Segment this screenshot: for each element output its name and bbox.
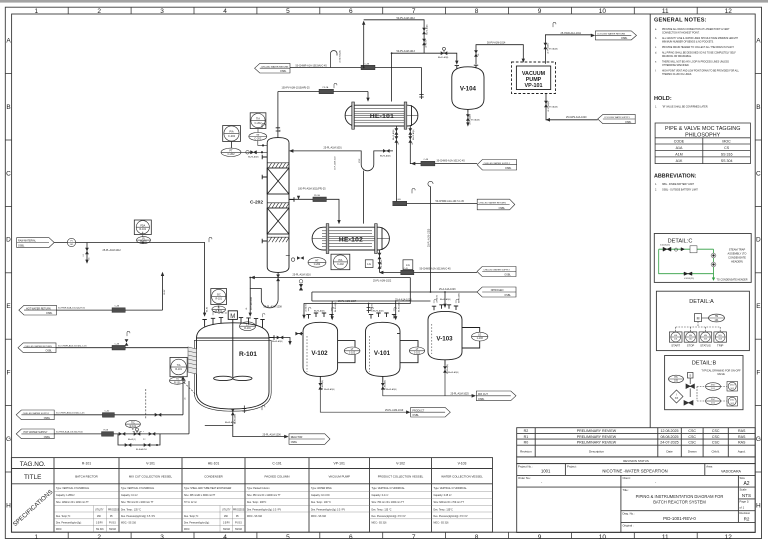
- wire V-104 to vacuum pump: [476, 45, 523, 64]
- svg-text:SP-1A2(B): SP-1A2(B): [549, 106, 558, 109]
- svg-text:50-HWR-A1A-1012(4)-H-50: 50-HWR-A1A-1012(4)-H-50: [58, 307, 86, 310]
- detail A lamp STATUS: [699, 332, 712, 347]
- svg-text:Des. Pressure(kg/cm2g): 3.5 /: Des. Pressure(kg/cm2g): 3.5 / FV: [121, 515, 156, 518]
- svg-text:Project No.:: Project No.:: [518, 465, 533, 469]
- instrument FI feed: [67, 238, 75, 246]
- svg-text:PROCESS: PROCESS: [108, 510, 120, 512]
- wire VP-101 cooling water return: [545, 35, 592, 64]
- svg-text:SP-1A2(B): SP-1A2(B): [471, 119, 480, 122]
- wire V103 drain join: [444, 366, 446, 396]
- svg-text:PROCESS: PROCESS: [233, 510, 245, 512]
- svg-text:C-202: C-202: [337, 263, 344, 266]
- svg-text:COOLING WATER RETURN: COOLING WATER RETURN: [597, 33, 625, 36]
- column C-202 packing section 1: [267, 168, 289, 194]
- svg-text:Client :: Client :: [623, 476, 632, 480]
- svg-text:V-101: V-101: [374, 350, 391, 357]
- svg-text:VADODARA: VADODARA: [721, 470, 742, 474]
- svg-text:OSBL: OSBL: [46, 350, 53, 353]
- wire feed drain stub: [86, 243, 88, 261]
- riser valve tags rotated: [334, 129, 416, 170]
- revision rows text: [524, 429, 746, 445]
- svg-text:7: 7: [412, 534, 416, 541]
- svg-text:RAS: RAS: [738, 429, 746, 433]
- svg-text:A2: A2: [743, 481, 749, 487]
- svg-text:OSBL: OSBL: [625, 121, 632, 124]
- svg-text:E: E: [756, 303, 761, 310]
- svg-text:HEADER): HEADER): [731, 260, 743, 264]
- right panel separator: [649, 14, 651, 428]
- svg-text:BA-H1(C): BA-H1(C): [128, 438, 136, 441]
- svg-text:Revision: Revision: [740, 511, 751, 515]
- svg-text:F: F: [7, 370, 11, 377]
- wire chilled water return low: [56, 347, 188, 349]
- svg-text:DETAIL:C: DETAIL:C: [668, 239, 693, 245]
- svg-text:VALVE: VALVE: [717, 373, 725, 376]
- svg-text:Date: Date: [666, 449, 673, 453]
- svg-text:A: A: [756, 38, 761, 45]
- svg-text:Type: VERTICAL CYLINDRICAL: Type: VERTICAL CYLINDRICAL: [372, 487, 406, 490]
- column C-202 side nozzles: [262, 155, 294, 243]
- svg-text:BATCH RECTOR: BATCH RECTOR: [75, 474, 98, 478]
- svg-text:MOC:- SS 316: MOC:- SS 316: [121, 523, 137, 525]
- svg-text:CHILLED WATER RETURN: CHILLED WATER RETURN: [25, 345, 53, 348]
- svg-text:MINIMUM NUMBER OF BENDS & NO P: MINIMUM NUMBER OF BENDS & NO POCKETS.: [662, 42, 714, 44]
- svg-text:1-101: 1-101: [414, 352, 421, 355]
- svg-text:Scale: Scale: [740, 488, 747, 492]
- wire hot water supply: [54, 381, 189, 434]
- svg-text:PRODUCT: PRODUCT: [412, 409, 424, 412]
- svg-text:PRELIMINARY REVIEW: PRELIMINARY REVIEW: [577, 441, 617, 445]
- svg-text:Size: 395 mmID x 3000 mmTT: Size: 395 mmID x 3000 mmTT: [184, 495, 216, 497]
- svg-text:50-CHWR-A1A-1015(4)-C-45: 50-CHWR-A1A-1015(4)-C-45: [296, 64, 328, 67]
- svg-text:OSBL: OSBL: [18, 244, 25, 247]
- svg-text:Des. Pressure(kg/cm2g): 3.5 /: Des. Pressure(kg/cm2g): 3.5 / FV: [311, 509, 346, 512]
- detail A lamp START: [669, 332, 682, 347]
- detail B solenoid: [688, 373, 694, 379]
- svg-text:TIC: TIC: [131, 421, 135, 424]
- svg-text:R-101: R-101: [140, 228, 147, 231]
- svg-text:RAS: RAS: [738, 435, 746, 439]
- svg-text:11: 11: [662, 534, 669, 541]
- svg-text:R-101: R-101: [82, 462, 91, 466]
- svg-text:MOC:: MOC:: [56, 529, 62, 531]
- svg-text:FV/3.5: FV/3.5: [109, 523, 116, 525]
- detail A lamp TRIP: [714, 332, 727, 347]
- svg-text:V-103: V-103: [436, 336, 453, 343]
- wire 1022 riser and manifold: [304, 278, 410, 316]
- wire nitrogen drop V-103: [444, 292, 446, 305]
- svg-text:SIC: SIC: [217, 294, 221, 297]
- svg-text:SA-H1-A2(B): SA-H1-A2(B): [386, 388, 397, 391]
- svg-text:REACTOR: REACTOR: [291, 436, 303, 439]
- svg-text:25-PL-A1M-1019: 25-PL-A1M-1019: [385, 409, 404, 412]
- svg-text:OSBL: OSBL: [505, 167, 512, 170]
- wire pv-1013 header: [392, 53, 457, 61]
- svg-text:08.08.2025: 08.08.2025: [661, 435, 679, 439]
- svg-text:25-PL-A1M-1001: 25-PL-A1M-1001: [324, 147, 343, 150]
- svg-text:E: E: [6, 303, 11, 310]
- svg-text:12: 12: [725, 8, 733, 15]
- R-101 limpet coil hatch: [188, 347, 197, 374]
- svg-text:F: F: [756, 370, 760, 377]
- instrument PIA C-202: [221, 126, 241, 157]
- svg-text:TIA: TIA: [177, 364, 181, 367]
- arrow sample down: [288, 341, 291, 345]
- svg-text:RAW MATERIAL: RAW MATERIAL: [18, 240, 37, 243]
- svg-text:8: 8: [475, 534, 479, 541]
- svg-text:A1M: A1M: [675, 152, 682, 156]
- svg-text:CSC: CSC: [712, 429, 720, 433]
- svg-text:Area:: Area:: [706, 465, 713, 469]
- spec table title row: [75, 474, 483, 478]
- svg-text:OTHERWISE SPECIFIED.: OTHERWISE SPECIFIED.: [662, 65, 690, 67]
- svg-text:C: C: [756, 170, 761, 177]
- instrument PDA feed: [134, 220, 151, 244]
- flag CHILLED WATER SUPPLY mid: [477, 160, 516, 171]
- svg-text:9: 9: [538, 8, 542, 15]
- svg-text:C-202: C-202: [254, 121, 262, 125]
- svg-text:Revision: Revision: [520, 449, 532, 453]
- arrow into HE-101: [366, 98, 369, 102]
- svg-text:50-PV-A1M-1012: 50-PV-A1M-1012: [397, 17, 416, 20]
- svg-text:C: C: [6, 170, 11, 177]
- svg-text:MOC:- SS 316: MOC:- SS 316: [372, 523, 388, 525]
- svg-text:4: 4: [223, 8, 227, 15]
- wire nitrogen header: [312, 292, 477, 301]
- flag HOT WATER SUPPLY: [16, 429, 54, 439]
- wire R-101 bottom drain: [205, 414, 287, 437]
- svg-text:50-CHWR-A1A-1013(5)-C-45: 50-CHWR-A1A-1013(5)-C-45: [58, 344, 87, 347]
- detail A box: [656, 291, 749, 350]
- svg-text:50-CHWS-A1A-1013(4)-C-45: 50-CHWS-A1A-1013(4)-C-45: [56, 411, 85, 414]
- svg-text:C-4B: C-4B: [424, 159, 429, 161]
- svg-text:Des. Pressure(kg/cm2g): 3.5 /: Des. Pressure(kg/cm2g): 3.5 / FV: [434, 515, 469, 518]
- svg-text:DETAIL:A: DETAIL:A: [689, 299, 714, 305]
- wire column mid product to HE-102: [289, 199, 339, 221]
- instrument LT on R-101 dome: [240, 322, 256, 331]
- reducer C-4B chws: [421, 161, 435, 166]
- svg-text:CHILLED WATER SUPPLY: CHILLED WATER SUPPLY: [483, 269, 510, 272]
- svg-text:BA-H1-A2(B): BA-H1-A2(B): [392, 129, 395, 140]
- instrument TIC hot water: [125, 420, 140, 428]
- detail C arrow to condensate header: [712, 278, 715, 281]
- svg-text:XXX: XXX: [359, 158, 361, 163]
- detail C green piping: [659, 249, 714, 277]
- svg-text:25-PL-A1M-1016: 25-PL-A1M-1016: [293, 274, 312, 277]
- wire nitrogen manifold: [312, 301, 431, 317]
- svg-text:TAG.NO.: TAG.NO.: [20, 461, 46, 468]
- svg-text:25-PL-A1M-1022: 25-PL-A1M-1022: [334, 156, 337, 170]
- instrument LT V-101: [409, 347, 424, 355]
- svg-text:MIX CUT: MIX CUT: [478, 393, 488, 396]
- svg-text:CHILLED WATER RETURN: CHILLED WATER RETURN: [261, 65, 289, 68]
- arrow n2 V-102: [331, 316, 334, 320]
- svg-text:GENERAL NOTES:: GENERAL NOTES:: [654, 18, 707, 24]
- svg-text:HOT WATER SUPPLY: HOT WATER SUPPLY: [24, 431, 48, 434]
- svg-text:D: D: [756, 237, 761, 244]
- valve HE101 drop 2: [408, 128, 412, 135]
- svg-text:C-101: C-101: [272, 462, 281, 466]
- border numbers top: [34, 8, 732, 15]
- flag CHILLED WATER SUPPLY low: [477, 267, 516, 277]
- svg-text:SA-H1-A2(B): SA-H1-A2(B): [426, 24, 429, 35]
- flag MIX CUT: [476, 391, 516, 401]
- flag HOT WATER RETURN: [19, 305, 57, 315]
- spec cell C-101: [247, 488, 282, 518]
- svg-text:OSBL: OSBL: [412, 414, 419, 417]
- valve VP cws riser: [544, 101, 548, 108]
- svg-text:A1K: A1K: [676, 159, 683, 163]
- flag PRODUCT: [411, 407, 451, 417]
- wire line 1016: [253, 277, 410, 279]
- svg-text:CONNECTION AT HIGHEST POINT.: CONNECTION AT HIGHEST POINT.: [662, 32, 700, 35]
- svg-text:STEAM TRAP: STEAM TRAP: [729, 248, 746, 252]
- arrow feed marker: [297, 196, 300, 200]
- svg-text:LG: LG: [406, 263, 410, 267]
- flag CHILLED WATER SUPPLY left: [16, 410, 54, 420]
- svg-text:6: 6: [349, 8, 353, 15]
- svg-text:STATUS: STATUS: [700, 343, 711, 347]
- svg-text:25-CWR-A1A-1011: 25-CWR-A1A-1011: [561, 32, 582, 35]
- wire reflux line 1001: [293, 151, 394, 171]
- wire 1023 riser: [430, 187, 432, 293]
- svg-text:25-PL-A1M-1206: 25-PL-A1M-1206: [263, 433, 282, 436]
- svg-text:3.5/FV: 3.5/FV: [96, 523, 103, 525]
- vessel V-102: [296, 313, 355, 383]
- svg-text:6: 6: [349, 534, 353, 541]
- svg-text:CSC: CSC: [688, 435, 696, 439]
- arrow nitrogen into V-103: [443, 304, 446, 308]
- wire HE-102 chws outlet: [380, 250, 478, 273]
- svg-text:50-CHWR-A1A-1017-C-45: 50-CHWR-A1A-1017-C-45: [436, 200, 465, 203]
- svg-text:100-PV-A1M-1011(PF)-25: 100-PV-A1M-1011(PF)-25: [298, 187, 326, 190]
- valve feed drain stub: [85, 248, 89, 255]
- detail B diamond interlock: [670, 390, 683, 403]
- svg-text:HE-101: HE-101: [208, 462, 220, 466]
- valve HE101 drop 1: [395, 128, 399, 135]
- detail A HS oval: [709, 314, 725, 322]
- svg-text:Type: WATER RING: Type: WATER RING: [311, 487, 332, 490]
- svg-text:R2: R2: [744, 516, 750, 521]
- svg-text:50-CHWS-A1A-1013(4)-C-45: 50-CHWS-A1A-1013(4)-C-45: [420, 267, 452, 270]
- detail A dashed signal tree: [676, 322, 721, 332]
- detail B valve with actuator: [686, 378, 694, 397]
- svg-text:C-202: C-202: [228, 134, 236, 138]
- instrument SIC R-101: [211, 289, 227, 313]
- svg-text:OSBL: OSBL: [504, 294, 511, 297]
- vessel V-101: [366, 313, 419, 383]
- svg-text:BA-H1-A2(B): BA-H1-A2(B): [412, 129, 415, 140]
- svg-text:OSBL: OSBL: [499, 207, 506, 210]
- svg-text:PRELIMINARY REVIEW: PRELIMINARY REVIEW: [577, 429, 617, 433]
- column C-202 support grid hatches: [267, 163, 289, 168]
- svg-text:12.08.2025: 12.08.2025: [661, 429, 679, 433]
- svg-text:1001: 1001: [541, 469, 551, 474]
- svg-text:SS316: SS316: [109, 529, 117, 531]
- svg-text:Des. Temp,°C:: Des. Temp,°C:: [56, 516, 71, 518]
- svg-text:B: B: [756, 104, 760, 111]
- svg-text:HS: HS: [719, 335, 723, 337]
- svg-text:50-HWS-A1A-1013(5)-H-50: 50-HWS-A1A-1013(5)-H-50: [56, 431, 84, 434]
- spec cell R-101: [56, 487, 120, 531]
- svg-text:CSC: CSC: [712, 435, 720, 439]
- svg-text:PF-2A: PF-2A: [323, 86, 329, 89]
- svg-text:OSBL: OSBL: [478, 398, 485, 401]
- svg-text:HS: HS: [674, 335, 678, 337]
- svg-text:OSBL - OUTSIDE BATTERY LIMIT: OSBL - OUTSIDE BATTERY LIMIT: [662, 189, 698, 192]
- reducer hwr: [112, 308, 125, 313]
- svg-text:OSBL: OSBL: [280, 70, 287, 73]
- svg-text:PF-2A: PF-2A: [314, 194, 320, 197]
- arrow cws left: [546, 118, 550, 122]
- arrow feed into R-101: [203, 313, 206, 317]
- svg-text:DETAIL:B: DETAIL:B: [692, 361, 717, 367]
- svg-text:SA-H1-A2(B): SA-H1-A2(B): [324, 388, 335, 391]
- title block grid: [517, 464, 756, 533]
- svg-text:SA-H1-A2(B): SA-H1-A2(B): [248, 156, 259, 159]
- svg-text:A1A: A1A: [676, 146, 683, 150]
- svg-text:C-202: C-202: [314, 263, 321, 266]
- svg-text:PT: PT: [229, 149, 233, 153]
- sample hooks: [262, 123, 265, 128]
- svg-text:H: H: [6, 502, 11, 509]
- svg-text:Des. Temp.: 135 °C: Des. Temp.: 135 °C: [121, 510, 141, 512]
- svg-text:R1: R1: [524, 435, 529, 439]
- svg-text:50-PV-A1M-1013: 50-PV-A1M-1013: [397, 50, 416, 53]
- svg-text:VACUUM PUMP: VACUUM PUMP: [328, 474, 350, 478]
- svg-text:Page 1/: Page 1/: [740, 499, 750, 503]
- svg-text:PIPING & INSTRUMENTATION DIAGR: PIPING & INSTRUMENTATION DIAGRAM FOR: [636, 494, 724, 499]
- spec cell V-101: [121, 487, 156, 525]
- spec cell VP-101: [311, 487, 346, 518]
- svg-text:BA-H1-A2(B): BA-H1-A2(B): [398, 302, 401, 312]
- svg-text:10: 10: [599, 8, 607, 15]
- svg-text:Des. Temp.: 100 °C: Des. Temp.: 100 °C: [311, 502, 331, 504]
- svg-text:3.5/FV: 3.5/FV: [223, 523, 230, 525]
- revision status bar: [517, 457, 756, 464]
- svg-text:HS: HS: [689, 335, 693, 337]
- wire V-101 feed drop: [367, 304, 371, 314]
- flag CHILLED WATER RETURN left: [18, 343, 56, 353]
- equipment spec table grid: [11, 458, 492, 533]
- svg-text:Size: 760 mm ID x 1000 mm TT: Size: 760 mm ID x 1000 mm TT: [372, 502, 405, 504]
- svg-text:Original :: Original :: [623, 523, 634, 527]
- svg-text:BA-H1-A2(B): BA-H1-A2(B): [334, 302, 337, 312]
- svg-text:BA-H1-A2(B): BA-H1-A2(B): [440, 298, 451, 301]
- valves hws line: [119, 432, 126, 436]
- svg-text:R-101: R-101: [215, 297, 222, 300]
- svg-text:CHILLED WATER RETURN: CHILLED WATER RETURN: [479, 202, 507, 205]
- heat exchanger HE-101: [345, 102, 418, 129]
- wire chilled water return top header: [290, 68, 424, 100]
- svg-text:25-PL-A1M-1012: 25-PL-A1M-1012: [103, 249, 122, 252]
- svg-text:BL-A1A-250: BL-A1A-250: [136, 448, 148, 451]
- valve V102 drain: [318, 383, 322, 390]
- svg-text:OSBL: OSBL: [44, 436, 51, 439]
- reducer C-45 chws low: [401, 270, 414, 275]
- svg-text:TYPICAL DRAWING FOR ON-OFF: TYPICAL DRAWING FOR ON-OFF: [701, 370, 741, 373]
- valve V104 riser: [474, 50, 478, 57]
- flag COOLING WATER RETURN: [595, 31, 636, 40]
- svg-text:Capacity: 0.25 m³: Capacity: 0.25 m³: [434, 494, 452, 497]
- instrument TIA R-101: [170, 357, 188, 384]
- flag REACTOR DRAIN: [289, 434, 330, 445]
- svg-text:Capacity: 0.4 m³: Capacity: 0.4 m³: [372, 494, 389, 497]
- HE-101 tube sheet flanges: [352, 102, 355, 129]
- vessel V-103: [428, 305, 480, 366]
- svg-text:30-CHWS-A1A-1013-C-45: 30-CHWS-A1A-1013-C-45: [437, 160, 466, 163]
- wire R-101 side sample: [269, 338, 290, 343]
- svg-text:25-CWS-A1A-1020: 25-CWS-A1A-1020: [566, 116, 587, 119]
- svg-text:CHILLED WATER SUPPLY: CHILLED WATER SUPPLY: [23, 412, 50, 415]
- wire instrument air dashes: [133, 232, 228, 432]
- valve R101 bottom: [231, 409, 235, 416]
- svg-text:Appd.: Appd.: [738, 449, 746, 453]
- svg-text:Capacity: 0.4 m³: Capacity: 0.4 m³: [121, 494, 138, 497]
- detail C box: [654, 234, 751, 283]
- svg-text:S: S: [689, 374, 691, 378]
- svg-text:COOLING WATR SUPPLY: COOLING WATR SUPPLY: [604, 116, 631, 119]
- wire VP-101 cooling water supply: [546, 94, 598, 120]
- svg-text:M: M: [697, 317, 700, 321]
- svg-text:7: 7: [412, 8, 416, 15]
- border numbers bottom: [34, 534, 732, 541]
- svg-text:D: D: [6, 237, 11, 244]
- detail B box: [665, 356, 743, 410]
- svg-text:START: START: [671, 343, 680, 347]
- svg-text:H: H: [756, 502, 761, 509]
- svg-text:25-A-A1A-1028: 25-A-A1A-1028: [395, 299, 412, 302]
- flag NITROGEN: [477, 287, 516, 297]
- svg-text:OSBL: OSBL: [291, 441, 298, 444]
- svg-text:V-101: V-101: [146, 462, 155, 466]
- svg-text:LG SA-H1-A2(B): LG SA-H1-A2(B): [339, 50, 342, 63]
- svg-text:ALL GRAVITY LINE & VAPOR LINES: ALL GRAVITY LINE & VAPOR LINES SHOULD HA…: [662, 37, 738, 40]
- svg-text:Des. Pressure(kg/cm2g):: Des. Pressure(kg/cm2g):: [184, 522, 210, 525]
- svg-text:REVISION STATUS: REVISION STATUS: [623, 459, 649, 463]
- reducer PF-2A mid: [313, 197, 327, 202]
- svg-text:Size: Size: [740, 476, 746, 480]
- svg-text:10: 10: [599, 534, 607, 541]
- svg-text:4: 4: [223, 534, 227, 541]
- svg-text:PUMP: PUMP: [526, 77, 542, 83]
- svg-text:25-PL-A1M-1022: 25-PL-A1M-1022: [373, 280, 392, 283]
- flag CHILLED WATER RETURN mid: [477, 199, 515, 210]
- instrument LG V-103: [472, 332, 488, 341]
- svg-text:50-PV-A1M-1202: 50-PV-A1M-1202: [250, 297, 253, 310]
- svg-text:V-102: V-102: [311, 350, 328, 357]
- svg-text:BA-H1-A2(B): BA-H1-A2(B): [373, 310, 384, 313]
- svg-text:MOC:- SS 316: MOC:- SS 316: [247, 516, 263, 518]
- valves hws bypass: [125, 443, 132, 447]
- valve V103 drain: [443, 366, 447, 373]
- svg-text:50-HW: 50-HW: [164, 289, 166, 295]
- svg-text:H.T.A: 12 m²: H.T.A: 12 m²: [184, 501, 197, 504]
- wire hws bypass loop: [118, 434, 160, 445]
- MOC tagging philosophy table: [655, 123, 750, 164]
- svg-text:NTS: NTS: [742, 493, 751, 498]
- svg-text:B: B: [6, 104, 10, 111]
- svg-text:LG: LG: [478, 334, 481, 337]
- svg-text:A: A: [6, 38, 11, 45]
- svg-text:V-104: V-104: [460, 86, 477, 93]
- svg-text:Project :: Project :: [567, 465, 577, 469]
- R-101 second bottom nozzle: [242, 406, 246, 414]
- svg-text:Size: 620mm ID x 700 mm TT: Size: 620mm ID x 700 mm TT: [434, 502, 465, 504]
- svg-text:G: G: [6, 436, 11, 443]
- svg-text:Des. Temp,°C:: Des. Temp,°C:: [184, 516, 199, 518]
- svg-text:9: 9: [538, 534, 542, 541]
